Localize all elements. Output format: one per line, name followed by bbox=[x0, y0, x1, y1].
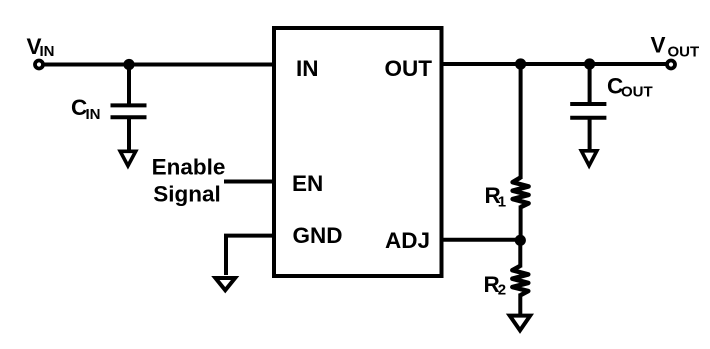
svg-text:GND: GND bbox=[293, 223, 343, 248]
ground CIN bbox=[120, 151, 136, 166]
pin label ADJ bbox=[385, 228, 430, 253]
terminal VOUT bbox=[667, 61, 675, 69]
svg-text:IN: IN bbox=[86, 106, 101, 123]
terminal VIN bbox=[35, 61, 43, 69]
svg-text:IN: IN bbox=[296, 56, 319, 81]
capacitor CIN bbox=[111, 65, 147, 153]
label Enable Signal bbox=[152, 154, 226, 206]
wire ADJ pin bbox=[442, 238, 521, 242]
wire OUT to VOUT bbox=[442, 62, 668, 66]
svg-text:OUT: OUT bbox=[385, 56, 433, 81]
regulator U1 bbox=[274, 28, 442, 276]
svg-text:2: 2 bbox=[498, 282, 506, 299]
svg-text:IN: IN bbox=[40, 43, 55, 60]
wire VIN to IN pin bbox=[44, 63, 274, 67]
svg-text:Signal: Signal bbox=[153, 181, 221, 206]
pin label GND bbox=[293, 223, 343, 248]
node input junction bbox=[123, 59, 134, 70]
pin label IN bbox=[296, 56, 319, 81]
label CIN bbox=[71, 95, 101, 123]
svg-text:V: V bbox=[651, 32, 666, 57]
node OUT junction COUT bbox=[584, 58, 595, 69]
ground COUT bbox=[581, 151, 597, 166]
ground GND pin bbox=[215, 278, 235, 290]
svg-text:ADJ: ADJ bbox=[385, 228, 430, 253]
ground R2 bbox=[510, 316, 531, 331]
resistor R2 bbox=[512, 240, 528, 317]
label COUT bbox=[607, 73, 653, 100]
wire GND pin bbox=[226, 236, 274, 275]
label VOUT bbox=[651, 32, 700, 60]
node ADJ junction bbox=[515, 235, 526, 246]
svg-text:EN: EN bbox=[292, 171, 323, 196]
svg-text:OUT: OUT bbox=[621, 84, 653, 101]
pin label EN bbox=[292, 171, 323, 196]
pin label OUT bbox=[385, 56, 433, 81]
label R2 bbox=[484, 272, 507, 299]
svg-text:Enable: Enable bbox=[152, 154, 226, 179]
node OUT junction R1 bbox=[515, 58, 526, 69]
resistor R1 bbox=[513, 64, 529, 240]
wire EN pin bbox=[224, 180, 274, 184]
svg-text:OUT: OUT bbox=[668, 44, 700, 61]
label R1 bbox=[485, 183, 507, 210]
svg-text:1: 1 bbox=[498, 193, 506, 210]
label VIN bbox=[27, 34, 55, 60]
capacitor COUT bbox=[570, 64, 606, 152]
